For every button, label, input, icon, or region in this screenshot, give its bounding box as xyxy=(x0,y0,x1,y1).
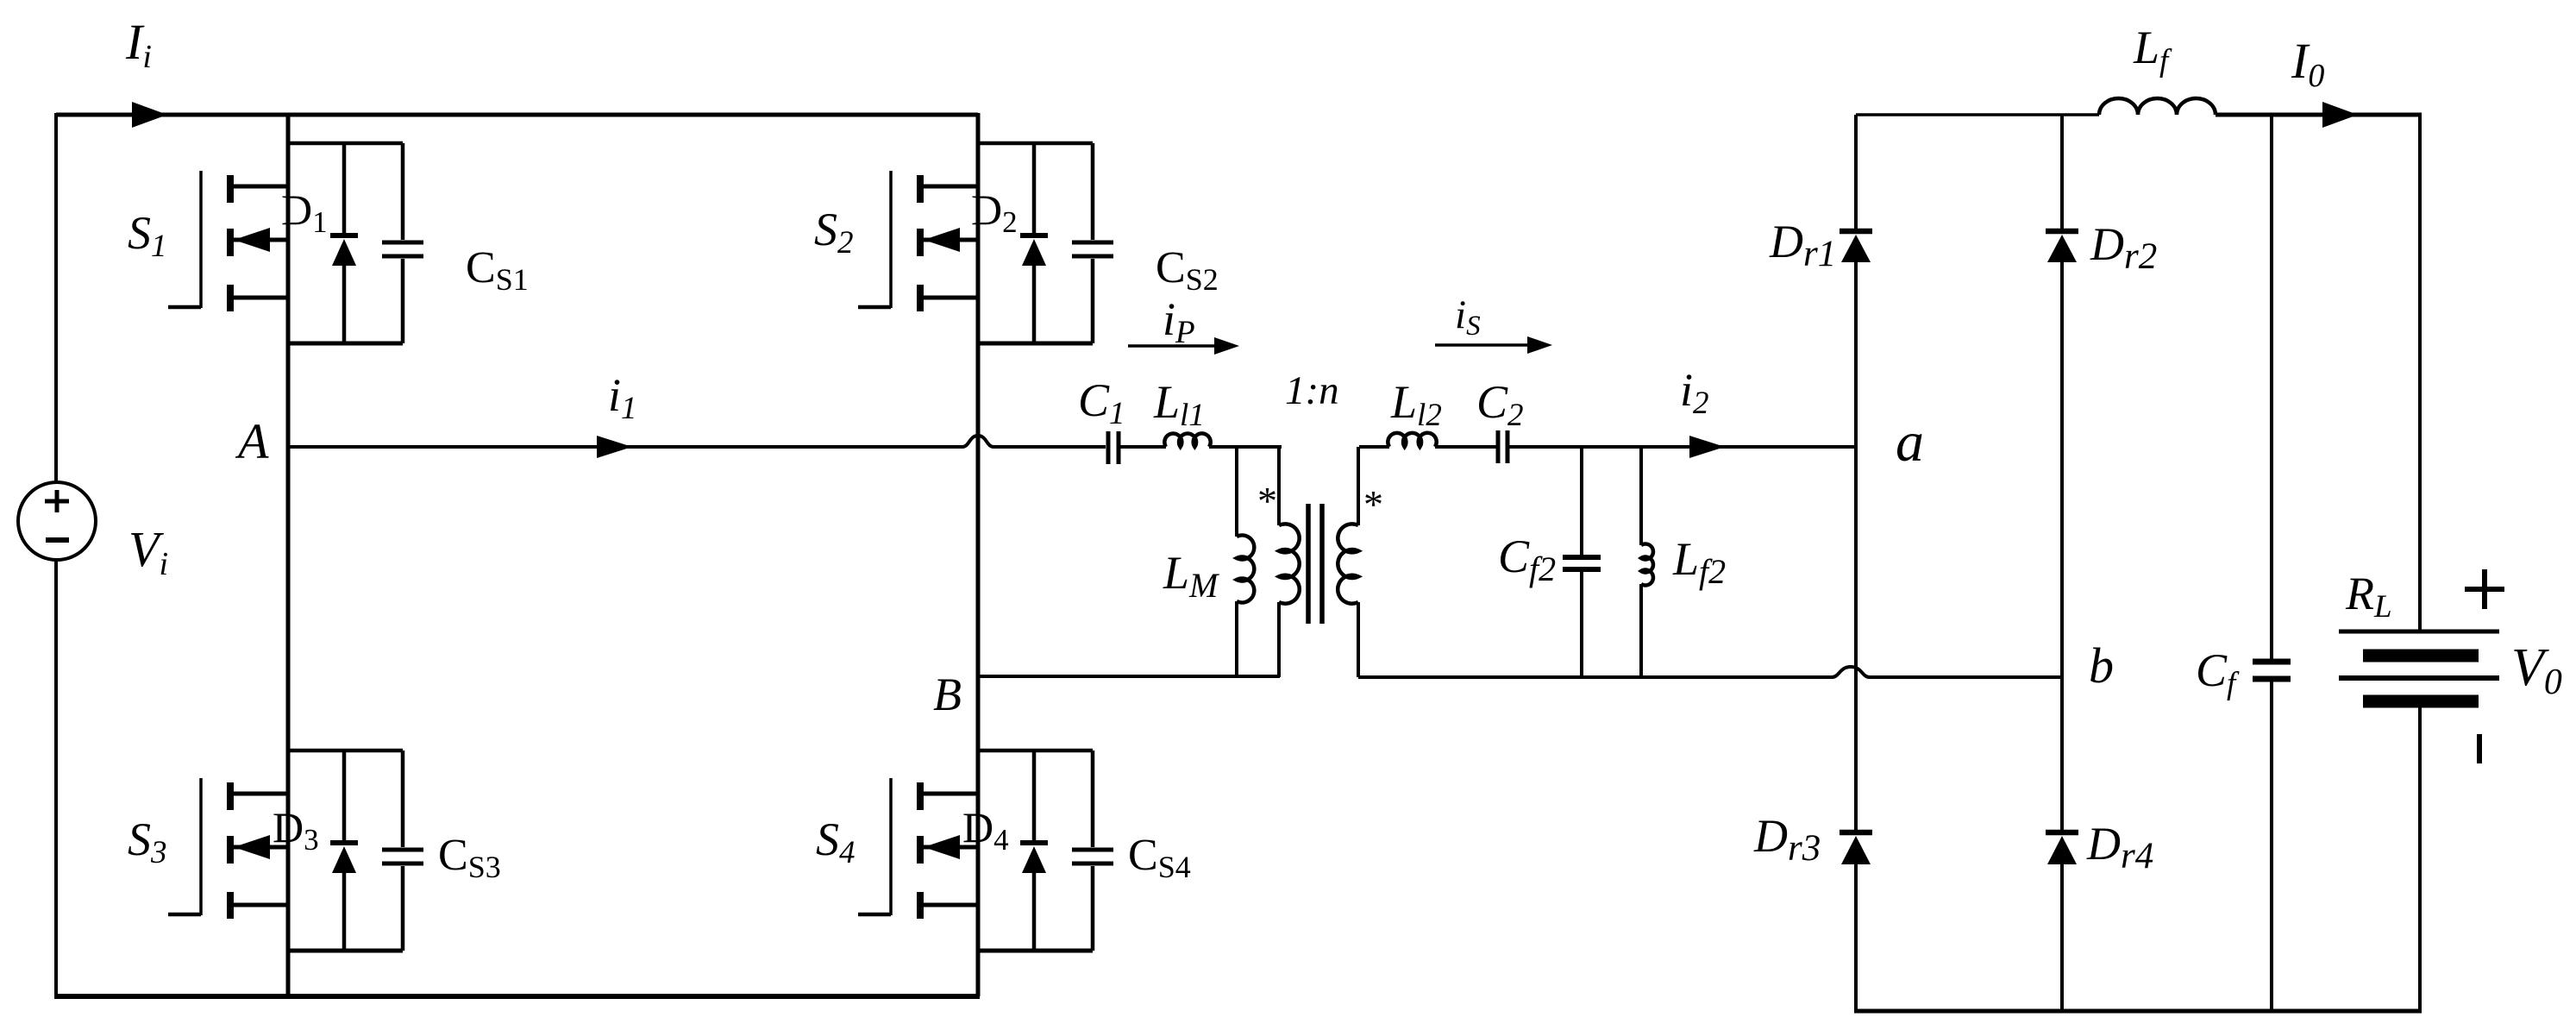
wire bridge leg A (S1/S3) xyxy=(286,113,291,996)
svg-text:b: b xyxy=(2089,637,2114,694)
voltage source minus sign xyxy=(46,537,69,543)
battery V0 bottom wire xyxy=(2418,707,2422,1013)
svg-text:*: * xyxy=(1363,482,1383,526)
capacitor C1 plates xyxy=(1108,431,1119,464)
arrow current iP xyxy=(1128,344,1218,348)
transformer core bars xyxy=(1308,504,1322,624)
diode Dr1 triangle xyxy=(1841,235,1871,262)
diode Dr3 triangle xyxy=(1841,836,1871,864)
diode Dr3 cathode bar xyxy=(1840,830,1872,836)
inductor Lf2 branch xyxy=(1639,447,1643,677)
arrow current I0 xyxy=(2322,102,2358,128)
transformer secondary winding xyxy=(1357,447,1360,525)
wire Ll1 to primary xyxy=(1209,445,1282,449)
arrow current Ii xyxy=(132,102,167,128)
inductor Ll2 xyxy=(1388,433,1436,447)
arrow current iS xyxy=(1435,343,1531,347)
inductor Ll1 xyxy=(1164,433,1210,447)
inductor Lf xyxy=(2099,98,2216,115)
wire left source bottom xyxy=(54,560,58,998)
wire secondary bottom to node b with crossover hop xyxy=(1358,675,1832,679)
svg-text:B: B xyxy=(933,669,962,720)
svg-text:A: A xyxy=(235,413,269,469)
wire secondary top to Ll2 xyxy=(1359,445,1389,449)
svg-text:a: a xyxy=(1896,411,1924,474)
capacitor Cf plates xyxy=(2253,662,2291,679)
wire Lf to corner xyxy=(2216,113,2422,117)
rectifier leg b (Dr2/Dr4) xyxy=(2060,115,2064,1011)
wire top output rail xyxy=(1856,113,2099,116)
wire Ll2 to C2 xyxy=(1435,445,1496,449)
wire bottom output rail xyxy=(1854,1009,2422,1014)
transistor S1 with body diode D1 and capacitor CS1 xyxy=(168,143,423,343)
inductor LM branch xyxy=(1235,447,1238,676)
rectifier leg a (Dr1/Dr3) xyxy=(1854,115,1858,1011)
transistor S4 with body diode D4 and capacitor CS4 xyxy=(858,751,1113,951)
wire C2 to node a xyxy=(1509,445,1856,449)
diode Dr4 triangle xyxy=(2047,836,2077,864)
battery V0 top wire xyxy=(2418,115,2422,632)
capacitor Cf branch xyxy=(2270,115,2273,1011)
voltage source Vi circle xyxy=(18,482,96,560)
battery plus sign xyxy=(2465,569,2504,609)
battery V0 plates xyxy=(2339,630,2499,634)
transformer primary winding xyxy=(1277,447,1281,525)
node A wire with crossover hop xyxy=(288,445,962,449)
wire C1 to Ll1 xyxy=(1120,445,1166,449)
voltage source plus sign xyxy=(45,490,69,512)
diode Dr4 cathode bar xyxy=(2046,830,2078,836)
arrow current i1 xyxy=(597,436,632,458)
diode Dr1 cathode bar xyxy=(1840,229,1872,235)
wire top input bus xyxy=(56,113,978,117)
svg-text:1:n: 1:n xyxy=(1285,368,1339,413)
transistor S3 with body diode D3 and capacitor CS3 xyxy=(168,751,423,951)
capacitor C2 plates xyxy=(1498,430,1507,463)
diode Dr2 triangle xyxy=(2047,235,2077,262)
arrow current i2 xyxy=(1689,436,1725,458)
wire bridge leg B (S2/S4) xyxy=(976,113,981,996)
transistor S2 with body diode D2 and capacitor CS2 xyxy=(858,143,1113,343)
capacitor Cf2 branch xyxy=(1580,447,1583,677)
diode Dr2 cathode bar xyxy=(2046,229,2078,235)
wire bottom input bus xyxy=(54,994,980,999)
svg-text:*: * xyxy=(1257,479,1277,523)
wire node B xyxy=(978,675,1280,678)
battery minus sign xyxy=(2477,734,2482,763)
wire left source top xyxy=(54,113,58,482)
